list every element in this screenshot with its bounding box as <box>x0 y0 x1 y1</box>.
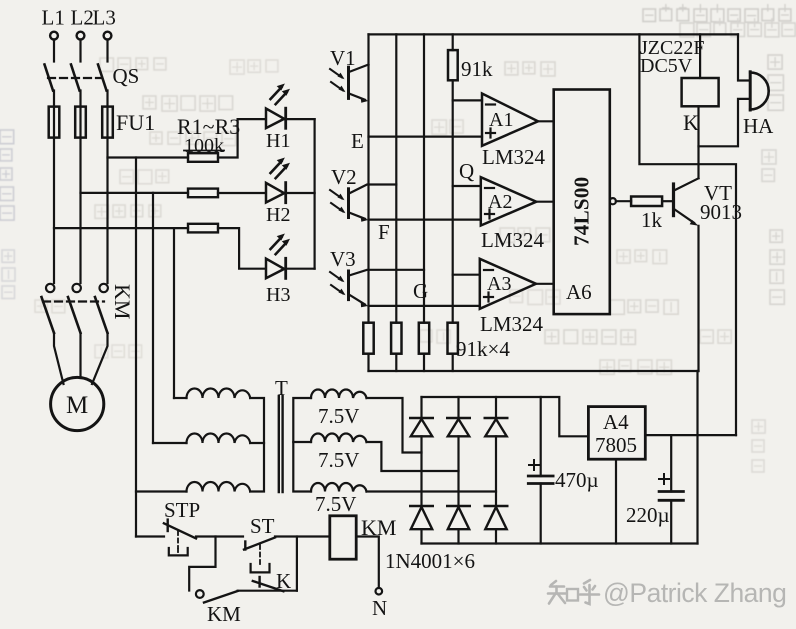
regulator A4 7805 <box>588 407 645 460</box>
svg-text:KM: KM <box>207 602 241 626</box>
wire secondary1 to bridge leg1 <box>367 398 422 453</box>
svg-text:DC5V: DC5V <box>640 55 693 77</box>
relay coil K <box>682 78 719 135</box>
wire relay feed from rail <box>699 34 701 78</box>
capacitor 220u <box>626 435 683 543</box>
resistor 91k x4 (no.2) <box>391 323 401 354</box>
wire ST to KM coil <box>275 535 330 537</box>
label JZC22F DC5V <box>640 37 704 77</box>
wire LED common vertical <box>314 119 316 269</box>
svg-text:HA: HA <box>743 114 774 138</box>
wire phase A column <box>53 91 55 284</box>
svg-text:KM: KM <box>110 284 135 319</box>
wire R3 to H3 <box>218 228 264 269</box>
svg-text:L1: L1 <box>42 6 65 30</box>
svg-text:LM324: LM324 <box>481 228 545 252</box>
contactor KM linkage (dashed) <box>43 300 104 302</box>
phototransistor V1 <box>330 46 369 103</box>
fuse FU1 b <box>75 107 86 138</box>
gate output bubble <box>610 198 616 204</box>
capacitor 470u <box>528 397 598 544</box>
wire bus v3 <box>423 34 425 322</box>
pushbutton STP (NC stop) <box>164 498 200 555</box>
wire A1 inverting input <box>453 99 482 101</box>
svg-text:H3: H3 <box>266 284 290 306</box>
wire bridge top bus <box>422 397 589 436</box>
LED H1 <box>266 108 290 152</box>
LED H3 <box>266 258 290 306</box>
svg-text:470µ: 470µ <box>555 468 599 492</box>
wire base <box>662 200 673 202</box>
svg-text:A6: A6 <box>566 280 592 304</box>
wire A3 inverting input <box>453 274 480 276</box>
svg-text:H1: H1 <box>266 130 290 152</box>
switch QS pole 1 <box>45 65 54 91</box>
svg-text:V2: V2 <box>331 165 357 189</box>
terminal L1 <box>42 6 65 40</box>
svg-text:V3: V3 <box>330 247 356 271</box>
wire tap row1 (to R1) <box>108 156 189 158</box>
svg-text:7.5V: 7.5V <box>318 448 359 472</box>
wire H2 cathode <box>284 192 315 194</box>
resistor 91k <box>448 50 493 81</box>
transformer primary winding 1 <box>187 389 251 399</box>
wire L2 drop <box>79 40 81 62</box>
diode D5 <box>447 506 469 544</box>
svg-text:91k: 91k <box>461 57 493 81</box>
wire bus v2 <box>395 34 397 322</box>
wire H3 cathode <box>284 268 315 270</box>
wire 5V feed vertical <box>639 34 736 435</box>
switch QS linkage (dashed) <box>48 77 102 79</box>
svg-text:LM324: LM324 <box>482 145 546 169</box>
svg-text:LM324: LM324 <box>480 312 544 336</box>
resistor 1k <box>631 197 662 233</box>
svg-text:G: G <box>413 279 428 303</box>
faint page bleed-through texture <box>0 4 795 472</box>
phototransistor V2 <box>330 165 396 222</box>
transformer primary winding 3 <box>187 482 251 492</box>
wire top supply rail <box>369 33 739 35</box>
svg-text:A2: A2 <box>488 191 512 213</box>
resistor R3 <box>188 224 218 233</box>
terminal L3 <box>93 6 116 40</box>
wire rail corner to HA <box>738 34 750 80</box>
resistor 91k x4 (no.3) <box>419 323 429 354</box>
svg-text:7.5V: 7.5V <box>318 404 359 428</box>
svg-text:STP: STP <box>164 498 200 522</box>
wire parallel branch right <box>296 537 298 591</box>
wire collector up <box>697 106 699 178</box>
wire parallel branch bottom <box>238 590 297 592</box>
svg-text:Q: Q <box>459 159 474 183</box>
op-amp A3 <box>480 259 544 336</box>
wire primary1 left lead <box>174 397 187 399</box>
wire motor feed left <box>54 333 64 384</box>
wire bus v4 (lower) <box>452 80 454 322</box>
node E wire <box>351 129 482 153</box>
svg-text:F: F <box>378 220 390 244</box>
svg-text:1N4001×6: 1N4001×6 <box>385 549 475 573</box>
wire secondary3 to bridge leg3 <box>367 490 497 492</box>
svg-text:A1: A1 <box>489 109 513 131</box>
wire A3 output <box>536 283 554 285</box>
contactor contact KM pole3 <box>95 284 108 333</box>
svg-text:@Patrick Zhang: @Patrick Zhang <box>603 578 786 608</box>
transformer primary winding 2 <box>187 434 251 444</box>
wire motor feed mid <box>79 333 81 378</box>
wire bus v1 <box>367 34 369 322</box>
wire resistor bottoms to ground bus <box>369 354 453 371</box>
diode D4 <box>410 506 432 544</box>
contactor contact KM pole2 <box>68 284 81 333</box>
svg-text:ST: ST <box>250 514 275 538</box>
motor M <box>51 377 104 430</box>
wire ground bus horizontal <box>369 370 699 372</box>
terminal L2 <box>71 6 94 40</box>
contact K (relay) <box>253 569 291 593</box>
svg-text:E: E <box>351 129 364 153</box>
svg-text:1k: 1k <box>641 208 663 232</box>
fuse FU1 a <box>49 107 60 138</box>
wire STP to ST <box>196 535 243 537</box>
wire R2 to H2 <box>218 192 264 194</box>
wire emitter down <box>697 226 699 371</box>
switch QS pole 2 <box>71 65 80 91</box>
diode D3 <box>485 397 507 506</box>
svg-text:100k: 100k <box>184 135 224 157</box>
svg-text:91k×4: 91k×4 <box>456 337 510 361</box>
LED H2 light arrows <box>271 158 291 179</box>
wire primary3 left lead <box>136 490 187 492</box>
contactor contact KM pole1 <box>42 284 55 333</box>
svg-text:H2: H2 <box>266 204 290 226</box>
wire tap row2 (to R2) <box>81 192 189 194</box>
transformer secondary winding 2 <box>311 434 367 473</box>
gate A6 74LS00 <box>554 90 610 315</box>
svg-text:V1: V1 <box>330 46 356 70</box>
switch QS pole 3 <box>98 65 107 91</box>
transformer secondary winding 1 <box>311 390 367 429</box>
node F wire <box>369 220 481 244</box>
svg-text:K: K <box>683 110 699 135</box>
wire R1 to H1 <box>218 119 264 157</box>
label R1~R3 100k <box>177 114 240 157</box>
LED H2 <box>266 183 290 226</box>
wire KM coil to N <box>356 537 379 589</box>
diode D1 <box>410 397 432 506</box>
buzzer HA <box>743 72 774 138</box>
relay coil KM <box>330 515 397 559</box>
wire primary2 right lead <box>250 442 264 444</box>
wire branch to transformer primary 1 <box>173 228 175 398</box>
node G wire <box>369 279 480 306</box>
wire STP feed <box>136 535 164 537</box>
diode D2 <box>447 397 469 506</box>
wire branch to transformer primary 2 <box>152 193 154 443</box>
terminal N <box>372 588 387 620</box>
wire parallel branch left <box>189 537 215 591</box>
wire phase B column <box>79 91 81 284</box>
LED H3 light arrows <box>271 234 291 255</box>
svg-text:QS: QS <box>113 64 140 88</box>
wire branch to transformer primary 3 / STP <box>135 158 137 537</box>
pushbutton ST (NO start) <box>244 514 275 572</box>
svg-text:L3: L3 <box>93 6 116 30</box>
op-amp A1 <box>482 94 546 170</box>
wire L1 drop <box>53 40 55 62</box>
svg-text:7805: 7805 <box>595 433 637 457</box>
transformer T core <box>275 376 288 492</box>
fuse FU1 c <box>102 107 113 138</box>
wire bus v4 (upper) <box>452 34 454 50</box>
svg-text:220µ: 220µ <box>626 503 670 527</box>
wire tap row3 (to R3) <box>54 227 188 229</box>
svg-text:T: T <box>275 376 288 400</box>
wire secondary2 to bridge leg2 <box>367 442 459 471</box>
svg-text:M: M <box>66 392 88 419</box>
wire H1 cathode <box>284 118 315 120</box>
wire gate output <box>616 200 631 202</box>
svg-text:N: N <box>372 596 387 620</box>
resistor R1 <box>188 153 218 162</box>
wire A1 output <box>538 120 554 122</box>
wire secondary common left <box>293 398 311 492</box>
diode D6 <box>485 506 507 544</box>
wire 7805 ground pin <box>615 459 617 543</box>
wire A2 output <box>536 201 553 203</box>
svg-text:L2: L2 <box>71 6 94 30</box>
wire phase C column <box>106 91 108 284</box>
svg-text:A4: A4 <box>603 410 629 434</box>
LED H1 light arrows <box>271 84 291 105</box>
transistor VT 9013 <box>674 178 743 226</box>
transformer secondary winding 3 <box>311 483 367 516</box>
wire L3 drop <box>106 40 108 62</box>
resistor 91k x4 (no.1) <box>363 323 373 354</box>
wire secondary2 left lead <box>293 441 311 443</box>
svg-text:A3: A3 <box>487 273 511 295</box>
contact KM auxiliary <box>196 590 241 626</box>
wire primary2 left lead <box>153 442 187 444</box>
resistor 91k x4 (no.4) <box>448 323 458 354</box>
wire primary common right <box>250 398 264 492</box>
op-amp A2 <box>481 177 545 252</box>
watermark zhihu @Patrick Zhang <box>548 578 786 608</box>
wire A2 inverting input <box>453 185 481 187</box>
svg-text:74LS00: 74LS00 <box>570 177 594 247</box>
phototransistor V3 <box>330 247 424 307</box>
wire 7805 output <box>645 434 736 436</box>
wire motor feed right <box>92 333 108 384</box>
wire HA bottom return <box>699 99 751 146</box>
svg-text:FU1: FU1 <box>116 110 155 135</box>
wire bottom ground rail <box>422 542 698 544</box>
wire ground down to bottom rail <box>696 371 698 544</box>
svg-text:7.5V: 7.5V <box>315 492 356 516</box>
resistor R2 <box>188 189 218 198</box>
